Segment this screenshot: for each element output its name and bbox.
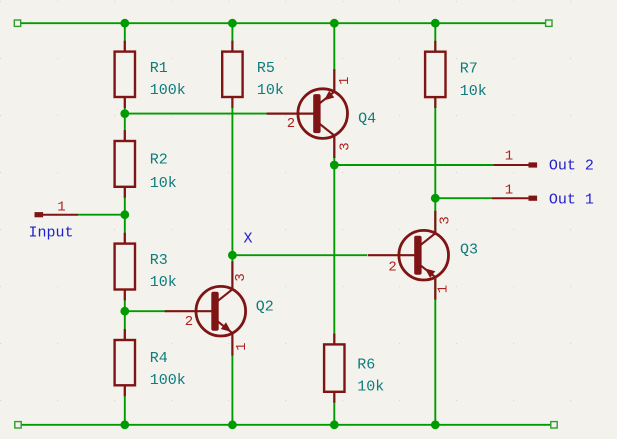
- svg-text:R2: R2: [150, 151, 168, 168]
- svg-text:Q2: Q2: [256, 299, 274, 316]
- svg-text:Q4: Q4: [358, 111, 376, 128]
- svg-text:1: 1: [436, 285, 452, 293]
- svg-text:R5: R5: [257, 60, 275, 77]
- svg-text:R7: R7: [460, 60, 478, 77]
- svg-text:3: 3: [233, 273, 249, 281]
- svg-text:10k: 10k: [357, 378, 384, 395]
- svg-text:2: 2: [287, 116, 295, 132]
- svg-text:R6: R6: [357, 357, 375, 374]
- svg-text:R4: R4: [150, 350, 168, 367]
- svg-text:1: 1: [505, 182, 513, 198]
- svg-text:Out 1: Out 1: [549, 192, 594, 209]
- svg-text:3: 3: [338, 142, 354, 150]
- svg-text:1: 1: [505, 148, 513, 164]
- svg-text:Input: Input: [29, 224, 74, 241]
- svg-text:2: 2: [185, 314, 193, 330]
- svg-text:R1: R1: [150, 60, 168, 77]
- svg-text:10k: 10k: [460, 83, 487, 100]
- svg-text:2: 2: [388, 260, 396, 276]
- svg-text:100k: 100k: [150, 372, 186, 389]
- svg-text:10k: 10k: [257, 82, 284, 99]
- svg-text:1: 1: [337, 77, 353, 85]
- svg-text:Out 2: Out 2: [549, 158, 594, 175]
- svg-text:Q3: Q3: [460, 242, 478, 259]
- svg-text:1: 1: [57, 200, 65, 216]
- svg-text:10k: 10k: [150, 175, 177, 192]
- svg-text:10k: 10k: [150, 274, 177, 291]
- svg-text:3: 3: [438, 216, 454, 224]
- svg-text:X: X: [244, 231, 253, 248]
- svg-text:1: 1: [234, 342, 250, 350]
- svg-text:100k: 100k: [150, 82, 186, 99]
- svg-text:R3: R3: [150, 252, 168, 269]
